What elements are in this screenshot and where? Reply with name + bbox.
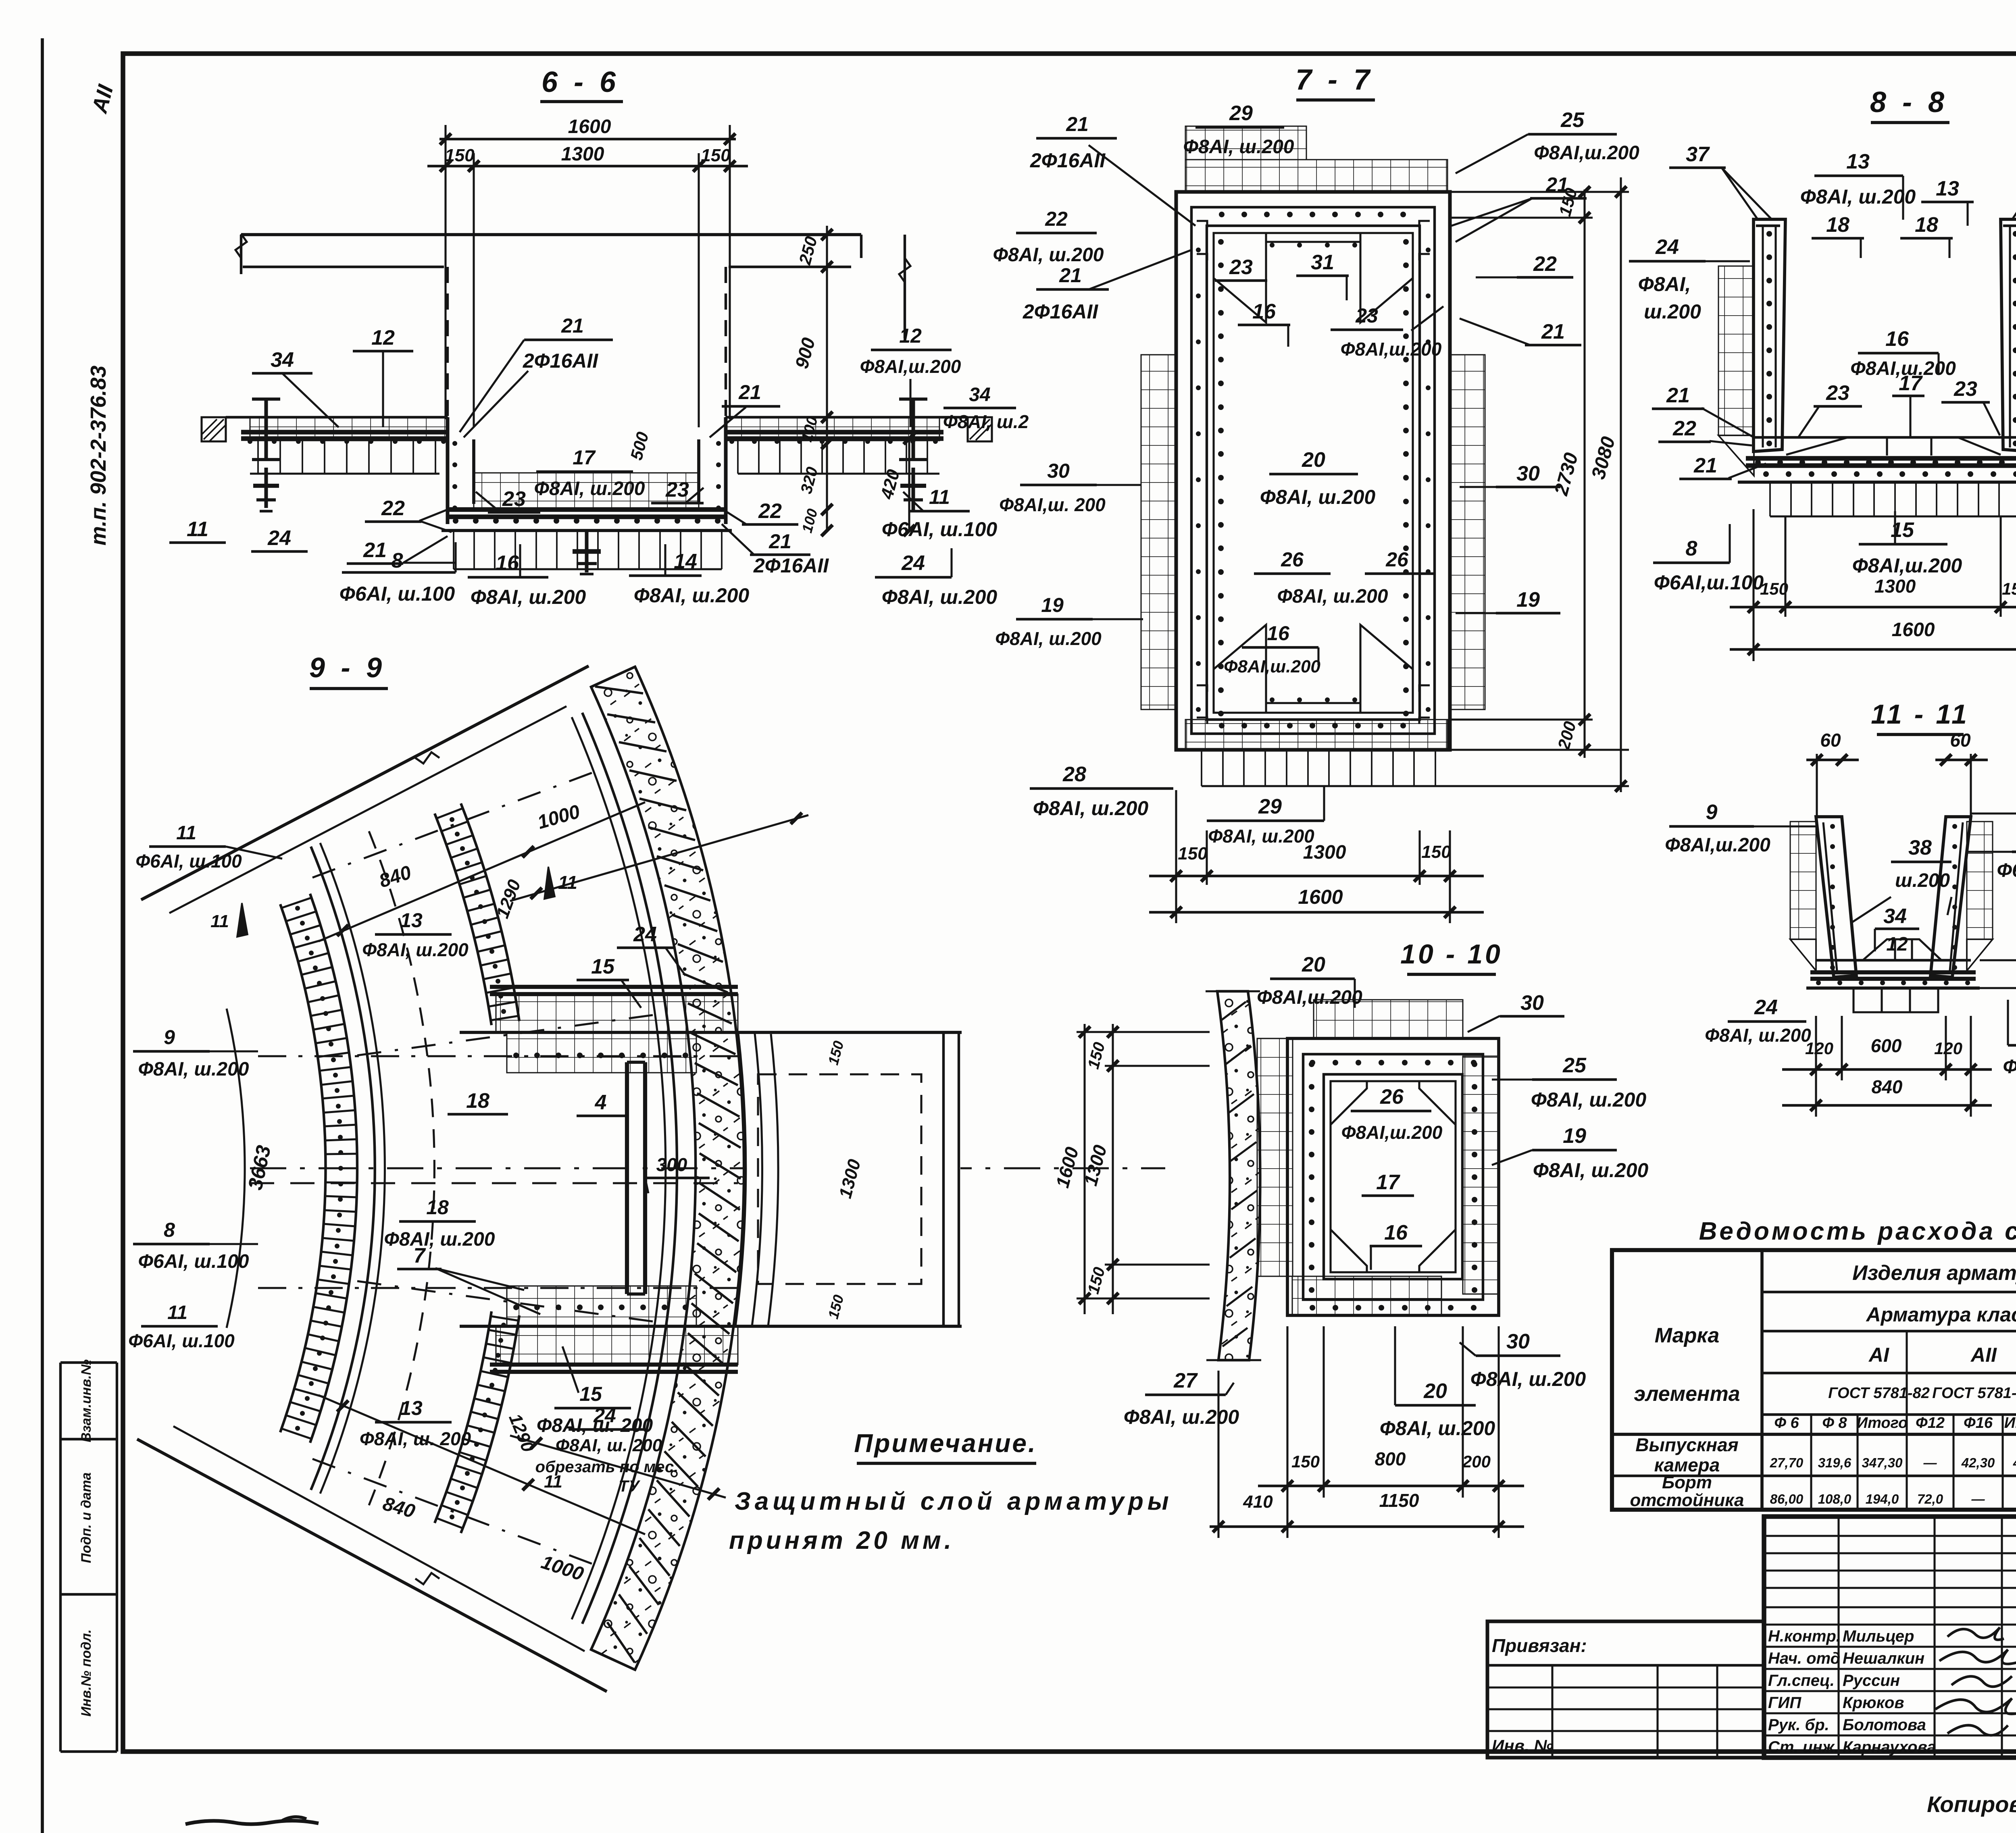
svg-text:—: —	[1971, 1492, 1985, 1506]
svg-text:1300: 1300	[1874, 576, 1916, 597]
svg-text:9: 9	[1706, 801, 1718, 824]
svg-text:22: 22	[758, 499, 782, 523]
svg-text:27: 27	[1173, 1369, 1198, 1392]
privyazan table frame	[1487, 1621, 1764, 1758]
svg-text:Ф8АI,ш. 200: Ф8АI,ш. 200	[999, 494, 1106, 515]
section 8-8 right wall	[2001, 219, 2016, 451]
svg-text:Ф8АI, ш.200: Ф8АI, ш.200	[1380, 1417, 1495, 1440]
svg-text:Нач. отд: Нач. отд	[1768, 1650, 1840, 1667]
section 6-6 channel bottom slab	[474, 473, 699, 509]
svg-text:150: 150	[1760, 579, 1788, 598]
svg-text:ТУ: ТУ	[619, 1477, 640, 1495]
section 10-10 inner haunches	[1331, 1081, 1367, 1125]
svg-text:Выпускная: Выпускная	[1635, 1434, 1739, 1455]
section 9-9 upper rung strip at portal	[490, 985, 738, 989]
svg-text:Ф8АI, ш.200: Ф8АI, ш.200	[362, 939, 469, 960]
svg-text:Защитный слой арматуры: Защитный слой арматуры	[735, 1488, 1173, 1515]
svg-text:150: 150	[1291, 1452, 1320, 1471]
svg-text:17: 17	[1899, 372, 1923, 395]
svg-text:Ф 6: Ф 6	[1774, 1415, 1799, 1431]
section 9-9 long ladder band (curved rebar strip)	[280, 904, 326, 1432]
svg-text:Ф8АI, ш.200: Ф8АI, ш.200	[471, 586, 586, 608]
svg-text:19: 19	[1041, 594, 1064, 616]
section 6-6 right slab with grid hatch	[726, 417, 939, 441]
section 9-9 horizontal dash-dot reference lines	[258, 1055, 744, 1057]
section 9-9 central vertical element 4	[625, 1062, 629, 1294]
svg-text:Ф6АI, ш.100: Ф6АI, ш.100	[135, 851, 242, 872]
svg-text:2Ф16АII: 2Ф16АII	[1030, 149, 1106, 172]
svg-text:Ф8АI,ш.200: Ф8АI,ш.200	[860, 356, 961, 377]
svg-text:26: 26	[1380, 1085, 1404, 1109]
svg-text:9 - 9: 9 - 9	[309, 652, 386, 683]
svg-text:26: 26	[1385, 548, 1409, 571]
svg-text:11: 11	[167, 1302, 187, 1323]
section 9-9 wall face arcs crossing portal	[735, 1033, 746, 1326]
title block left signature grid	[1764, 1535, 2016, 1537]
svg-text:21: 21	[1541, 320, 1565, 343]
section 11-11 left wall (tapered)	[1816, 817, 1856, 977]
svg-text:Ф8АI, ш.2: Ф8АI, ш.2	[943, 411, 1029, 432]
svg-text:Ф8АI,ш.200: Ф8АI,ш.200	[1341, 1122, 1443, 1143]
svg-text:21: 21	[561, 314, 584, 337]
svg-text:Ф8АI,ш.200: Ф8АI,ш.200	[1534, 142, 1639, 164]
svg-text:8: 8	[164, 1219, 175, 1241]
svg-text:22: 22	[1045, 208, 1068, 230]
svg-text:1600: 1600	[568, 116, 611, 137]
svg-text:24: 24	[267, 526, 291, 550]
section 7-7 inner corner haunches	[1214, 233, 1266, 322]
svg-text:34: 34	[271, 348, 294, 372]
svg-text:1600: 1600	[1298, 886, 1343, 908]
svg-text:18: 18	[426, 1196, 449, 1219]
svg-text:Взам.инв.№: Взам.инв.№	[79, 1359, 94, 1442]
svg-text:22: 22	[1533, 252, 1557, 276]
section 10-10 left dim chains 150 1300 150 / 1600	[1083, 1024, 1085, 1314]
svg-text:Ф8АI, ш.200: Ф8АI, ш.200	[1705, 1025, 1811, 1046]
section 10-10 grid hatch frame	[1314, 1000, 1463, 1038]
svg-text:Ф8АI, ш.200: Ф8АI, ш.200	[1124, 1406, 1239, 1428]
steel table grid	[1760, 1250, 1764, 1510]
svg-text:24: 24	[901, 551, 925, 575]
svg-text:Ф8АI, ш.200: Ф8АI, ш.200	[993, 244, 1104, 266]
svg-text:150: 150	[1421, 842, 1451, 862]
section 6-6 channel bottom axis symbol	[585, 531, 589, 572]
svg-text:11: 11	[544, 1472, 562, 1492]
section 6-6 concrete cut hatch right end	[968, 417, 992, 441]
svg-text:17: 17	[1376, 1171, 1400, 1194]
section 9-9 inner wall arcs	[582, 713, 677, 1624]
svg-text:347,30: 347,30	[1862, 1455, 1903, 1470]
section 9-9 upper panel ladder strip	[435, 814, 492, 1025]
section 9-9 diagonal dimension lines lower	[319, 1395, 645, 1534]
svg-text:Н.контр.: Н.контр.	[1768, 1627, 1841, 1645]
section 6-6 left slab with grid hatch	[250, 417, 448, 441]
svg-text:Ф8АI,ш.200: Ф8АI,ш.200	[1224, 657, 1320, 676]
svg-text:23: 23	[502, 487, 526, 511]
svg-text:12: 12	[1886, 934, 1908, 955]
svg-text:Нешалкин: Нешалкин	[1843, 1650, 1924, 1667]
svg-text:8: 8	[1686, 537, 1697, 560]
section 6-6 right dimension chain 250 900 100 320 100	[826, 226, 828, 532]
section 6-6 dashed wall lines	[446, 267, 449, 419]
svg-text:27,70: 27,70	[1770, 1455, 1804, 1470]
svg-text:2Ф16АII: 2Ф16АII	[1023, 300, 1098, 323]
svg-text:Изделия арматурные: Изделия арматурные	[1852, 1261, 2016, 1285]
svg-text:15: 15	[579, 1383, 602, 1405]
svg-text:30: 30	[1506, 1330, 1530, 1353]
section 9-9 dashed axis arcs	[369, 831, 434, 1505]
svg-text:Рук. бр.: Рук. бр.	[1768, 1716, 1829, 1734]
svg-text:30: 30	[1047, 460, 1070, 482]
svg-text:16: 16	[496, 551, 519, 575]
svg-text:принят 20 мм.: принят 20 мм.	[729, 1527, 954, 1554]
svg-text:Ф8АI, ш.200: Ф8АI, ш.200	[1800, 185, 1916, 208]
svg-text:18: 18	[466, 1089, 489, 1113]
svg-text:8: 8	[392, 549, 403, 572]
svg-text:18: 18	[1826, 213, 1849, 237]
svg-text:ш.200: ш.200	[1895, 870, 1950, 891]
section 6-6 concrete cut hatch left end	[202, 417, 226, 441]
svg-text:72,0: 72,0	[1917, 1492, 1943, 1506]
section 7-7 hook symbols	[1197, 221, 1207, 227]
svg-text:13: 13	[400, 1397, 423, 1419]
svg-text:1300: 1300	[561, 144, 604, 165]
svg-text:30: 30	[1516, 462, 1540, 485]
section 10-10 curved concrete wall strip (left)	[1217, 991, 1260, 1360]
svg-text:20: 20	[1302, 953, 1325, 976]
svg-text:Гл.спец.: Гл.спец.	[1768, 1672, 1835, 1689]
svg-text:19: 19	[1516, 588, 1540, 612]
svg-text:Инв.№ подл.: Инв.№ подл.	[79, 1629, 94, 1717]
svg-text:Ф8АI,: Ф8АI,	[1638, 273, 1691, 295]
section 10-10 inner rings with dots	[1303, 1054, 1483, 1300]
svg-text:37: 37	[1686, 143, 1710, 166]
svg-text:14: 14	[674, 550, 697, 573]
svg-text:21: 21	[1066, 113, 1089, 135]
section 9-9 lower panel ladder strip	[435, 1311, 492, 1523]
svg-text:7: 7	[414, 1244, 426, 1267]
section 9-9 top cut edge	[141, 666, 589, 900]
section 7-7 wall inner lines with rebar dots	[1191, 207, 1435, 734]
svg-text:12: 12	[371, 326, 395, 350]
svg-text:Болотова: Болотова	[1843, 1716, 1926, 1734]
svg-text:11: 11	[558, 872, 577, 893]
svg-text:410: 410	[1243, 1492, 1273, 1512]
svg-text:21: 21	[738, 381, 761, 404]
svg-text:Ф8АI, ш. 200: Ф8АI, ш. 200	[556, 1436, 662, 1455]
svg-text:29: 29	[1258, 795, 1282, 818]
section 9-9 lower rung strip at portal	[507, 1286, 696, 1326]
svg-text:16: 16	[1885, 327, 1909, 351]
svg-text:АI: АI	[1868, 1344, 1889, 1366]
section 8-8 inner bottom haunch	[1786, 437, 2001, 455]
svg-text:ГОСТ 5781-82: ГОСТ 5781-82	[1828, 1385, 1930, 1402]
svg-text:21: 21	[1693, 454, 1717, 477]
svg-text:21: 21	[363, 539, 387, 562]
section 8-8 bottom slab	[1754, 436, 2016, 439]
section 9-9 dashed panel joint lines	[312, 773, 592, 878]
svg-text:11: 11	[187, 518, 208, 541]
section 11-11 outer grid hatch bands	[1790, 822, 1816, 939]
section 11-11 right wall (tapered)	[1931, 817, 1971, 977]
svg-text:Ф 8: Ф 8	[1822, 1415, 1847, 1431]
svg-text:ш.200: ш.200	[1644, 300, 1701, 323]
svg-text:Ф8АI, ш.200: Ф8АI, ш.200	[1531, 1088, 1647, 1111]
svg-text:19: 19	[1563, 1124, 1586, 1148]
svg-text:31: 31	[1311, 251, 1334, 274]
svg-text:11 - 11: 11 - 11	[1871, 699, 1969, 730]
svg-text:Ф8АI, ш.200: Ф8АI, ш.200	[534, 478, 645, 499]
svg-text:120: 120	[1934, 1039, 1962, 1058]
svg-text:Ф8АI, ш.200: Ф8АI, ш.200	[1277, 586, 1388, 607]
svg-text:Ф8АI, ш.200: Ф8АI, ш.200	[1183, 136, 1294, 158]
svg-text:Примечание.: Примечание.	[854, 1429, 1037, 1458]
svg-text:34: 34	[969, 384, 990, 406]
svg-text:АII: АII	[1970, 1344, 1997, 1366]
svg-text:Инв. №: Инв. №	[1492, 1736, 1553, 1755]
section 9-9 diagonal dimension lines upper	[319, 802, 645, 941]
svg-text:6 - 6: 6 - 6	[541, 66, 620, 98]
svg-text:21: 21	[768, 530, 791, 553]
svg-text:300: 300	[656, 1154, 687, 1175]
svg-text:Марка: Марка	[1655, 1324, 1720, 1347]
svg-text:17: 17	[573, 446, 596, 469]
svg-text:Ф12: Ф12	[1916, 1415, 1945, 1431]
svg-text:Борт: Борт	[1662, 1473, 1712, 1492]
svg-text:23: 23	[1954, 377, 1977, 401]
title block frame	[1764, 1517, 2016, 1758]
svg-text:21: 21	[1666, 384, 1690, 407]
svg-text:800: 800	[1375, 1448, 1406, 1469]
section 7-7 right dimension chain 150 2730 200	[1583, 189, 1585, 758]
svg-text:150: 150	[701, 146, 731, 165]
svg-text:Крюков: Крюков	[1843, 1694, 1904, 1712]
svg-text:34: 34	[1883, 905, 1907, 928]
svg-text:21: 21	[1545, 173, 1568, 196]
section 7-7 concrete outline	[1176, 192, 1450, 750]
svg-text:13: 13	[1936, 177, 1959, 200]
svg-text:Ф8АI, ш.200: Ф8АI, ш.200	[634, 584, 750, 607]
svg-text:Ф6АI, ш.100: Ф6АI, ш.100	[128, 1330, 235, 1351]
section 6-6 channel walls	[446, 417, 450, 524]
section 9-9 radius arc 3663 (dim)	[227, 1009, 245, 1328]
svg-text:2Ф16АII: 2Ф16АII	[523, 350, 598, 372]
svg-text:26: 26	[1281, 548, 1304, 571]
svg-text:13: 13	[400, 909, 423, 932]
svg-text:15: 15	[591, 955, 615, 978]
svg-text:Ф6АI,ш.100: Ф6АI,ш.100	[1654, 571, 1764, 594]
svg-text:Мильцер: Мильцер	[1843, 1627, 1914, 1645]
section 8-8 left wall	[1754, 219, 1785, 451]
svg-text:11: 11	[929, 486, 950, 508]
svg-text:Ф6АI, ш.100: Ф6АI, ш.100	[882, 518, 998, 541]
svg-text:10 - 10: 10 - 10	[1400, 939, 1503, 970]
svg-text:Ф8АI, ш.200: Ф8АI, ш.200	[1260, 486, 1376, 508]
svg-text:Ф6АI, ш.100: Ф6АI, ш.100	[138, 1251, 249, 1272]
section 9-9 top outer cut of speckle band	[591, 667, 635, 687]
svg-text:22: 22	[381, 497, 405, 520]
svg-text:23: 23	[1355, 304, 1378, 327]
title block signatures (scribbles)	[1947, 1627, 2004, 1640]
svg-text:Арматура класса: Арматура класса	[1866, 1303, 2016, 1326]
svg-text:22: 22	[1672, 417, 1696, 440]
svg-text:Карнаухова: Карнаухова	[1843, 1738, 1936, 1756]
svg-text:Ф16: Ф16	[1964, 1415, 1993, 1431]
svg-text:Ф8АI,ш.200: Ф8АI,ш.200	[1341, 339, 1442, 360]
svg-text:24: 24	[593, 1404, 616, 1427]
svg-text:840: 840	[1872, 1076, 1903, 1097]
svg-text:Подп. и дата: Подп. и дата	[79, 1472, 94, 1563]
svg-text:—: —	[1923, 1455, 1937, 1470]
svg-text:24: 24	[1655, 235, 1679, 259]
svg-text:Ст. инж.: Ст. инж.	[1768, 1738, 1839, 1756]
svg-text:12: 12	[899, 325, 922, 347]
section 10-10 concrete outline	[1287, 1038, 1499, 1315]
svg-text:319,6: 319,6	[1818, 1455, 1851, 1470]
svg-text:Ф8АI,ш. 200: Ф8АI,ш. 200	[2003, 1056, 2016, 1078]
section 11-11 bottom slab	[1816, 959, 1971, 961]
svg-text:23: 23	[665, 478, 689, 501]
section 8-8 wall top hooks	[1756, 225, 1780, 227]
section 8-8 outer grid hatch bands	[1718, 266, 1754, 435]
svg-text:16: 16	[1252, 300, 1276, 323]
svg-text:25: 25	[1560, 108, 1585, 132]
svg-text:1600: 1600	[1892, 619, 1935, 641]
svg-text:Итого: Итого	[2004, 1415, 2016, 1431]
svg-text:Ф6АI, ш.100: Ф6АI, ш.100	[339, 583, 455, 605]
section 9-9 bottom cut edge	[137, 1439, 607, 1692]
svg-text:20: 20	[1302, 448, 1325, 472]
svg-text:Ведомость расхода стали, кг: Ведомость расхода стали, кг	[1699, 1217, 2016, 1245]
section 6-6 support symbol right	[912, 399, 915, 460]
svg-text:ГИП: ГИП	[1768, 1694, 1801, 1712]
svg-text:Копировал:: Копировал:	[1927, 1791, 2016, 1817]
svg-text:38: 38	[1908, 836, 1932, 859]
svg-text:42,30: 42,30	[2013, 1455, 2016, 1470]
steel table frame	[1612, 1250, 2016, 1510]
svg-text:25: 25	[1562, 1054, 1587, 1077]
svg-text:1150: 1150	[1379, 1490, 1419, 1511]
section 6-6 dimension 420 (right)	[908, 439, 910, 532]
svg-text:13: 13	[1846, 150, 1870, 173]
svg-text:т.п. 902-2-376.83: т.п. 902-2-376.83	[86, 366, 110, 546]
svg-text:24: 24	[633, 923, 657, 946]
svg-text:21: 21	[1059, 264, 1082, 287]
section 11-11 inner bottom haunch	[1863, 939, 1941, 960]
svg-text:2Ф16АII: 2Ф16АII	[753, 554, 829, 577]
svg-text:9: 9	[164, 1026, 175, 1049]
svg-text:Ф8АI, ш.200: Ф8АI, ш.200	[384, 1229, 495, 1250]
svg-text:18: 18	[1915, 213, 1938, 237]
svg-text:Ф8АI, ш.200: Ф8АI, ш.200	[1470, 1368, 1586, 1390]
svg-text:30: 30	[1520, 991, 1544, 1015]
svg-text:86,00: 86,00	[1770, 1492, 1804, 1506]
svg-text:Ф8АI,ш.200: Ф8АI,ш.200	[1852, 554, 1962, 577]
svg-text:Ф8АI, ш.200: Ф8АI, ш.200	[995, 628, 1102, 649]
svg-text:7 - 7: 7 - 7	[1295, 64, 1374, 96]
svg-text:отстойника: отстойника	[1630, 1490, 1744, 1510]
section 9-9 portal (outlet opening)	[745, 1034, 960, 1325]
svg-text:Ф8АI,ш.200: Ф8АI,ш.200	[1257, 987, 1362, 1008]
svg-text:23: 23	[1826, 381, 1849, 405]
svg-text:42,30: 42,30	[1961, 1455, 1995, 1470]
svg-text:150: 150	[2002, 579, 2016, 598]
svg-text:Ф8АI, ш.200: Ф8АI, ш.200	[1033, 797, 1149, 820]
svg-text:150: 150	[1178, 844, 1208, 863]
section 6-6 upper wall edge lines	[241, 233, 861, 236]
svg-text:11: 11	[210, 911, 229, 931]
left margin cells (Инв.№подл / Подп.и дата / Взам.инв.№)	[59, 1363, 62, 1752]
svg-text:16: 16	[1384, 1221, 1408, 1244]
svg-text:60: 60	[1820, 730, 1841, 751]
svg-text:Ф8АI, ш.200: Ф8АI, ш.200	[1533, 1159, 1649, 1182]
svg-text:Ф6АI, ш.100: Ф6АI, ш.100	[1997, 860, 2016, 881]
section 9-9 outer concrete band with speckle hatch	[591, 667, 744, 1670]
svg-text:16: 16	[1267, 622, 1290, 645]
svg-text:Ф8АI, ш.200: Ф8АI, ш.200	[882, 586, 998, 608]
section 9-9 second dashed line near axis	[250, 1182, 738, 1184]
svg-text:Привязан:: Привязан:	[1492, 1635, 1587, 1656]
svg-text:Ф8АI, ш.200: Ф8АI, ш.200	[1208, 826, 1314, 847]
svg-text:4: 4	[595, 1091, 607, 1114]
section 6-6 support symbol left	[264, 399, 268, 460]
svg-text:600: 600	[1871, 1035, 1902, 1056]
svg-text:элемента: элемента	[1634, 1382, 1740, 1406]
svg-text:108,0: 108,0	[1818, 1492, 1851, 1506]
svg-text:8 - 8: 8 - 8	[1870, 86, 1948, 119]
svg-text:Ф8АI, ш. 200: Ф8АI, ш. 200	[360, 1428, 471, 1449]
svg-text:11: 11	[176, 822, 196, 844]
svg-text:Ф8АI,ш.200: Ф8АI,ш.200	[1665, 834, 1770, 856]
svg-text:29: 29	[1229, 102, 1253, 125]
svg-text:20: 20	[1423, 1379, 1447, 1403]
svg-text:ГОСТ 5781-82: ГОСТ 5781-82	[1932, 1385, 2016, 1402]
svg-text:Итого: Итого	[1857, 1415, 1908, 1431]
svg-text:60: 60	[1950, 730, 1971, 751]
svg-text:200: 200	[1462, 1452, 1491, 1471]
svg-text:Ф8АI, ш.200: Ф8АI, ш.200	[138, 1059, 249, 1080]
svg-text:194,0: 194,0	[1866, 1492, 1899, 1506]
svg-text:28: 28	[1062, 763, 1086, 786]
svg-text:23: 23	[1229, 256, 1253, 279]
section 7-7 outer grid hatch bands	[1185, 160, 1447, 193]
svg-text:Руссин: Руссин	[1843, 1672, 1900, 1689]
svg-text:24: 24	[1754, 996, 1778, 1019]
